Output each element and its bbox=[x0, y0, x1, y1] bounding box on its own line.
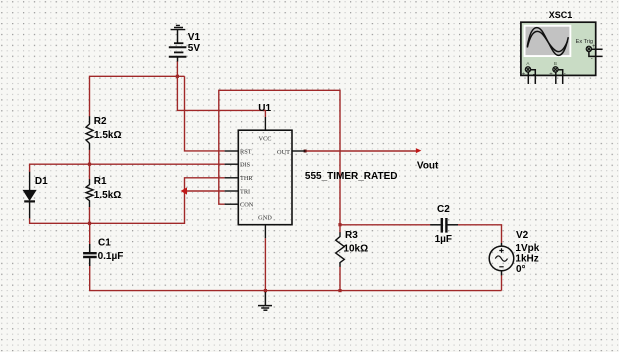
pin lead CON bbox=[225, 203, 239, 205]
svg-text:VCC: VCC bbox=[259, 135, 272, 142]
ground symbol bbox=[258, 292, 272, 310]
svg-text:+: + bbox=[592, 44, 596, 50]
junction dot OUT pin bbox=[304, 150, 307, 153]
arrow Vout wire end bbox=[416, 148, 422, 153]
wire vertical x184.5 to RST bbox=[185, 76, 225, 151]
svg-text:XSC1: XSC1 bbox=[549, 10, 573, 20]
svg-text:DIS: DIS bbox=[240, 162, 251, 169]
svg-text:V1: V1 bbox=[188, 32, 201, 43]
svg-text:+: + bbox=[549, 72, 553, 78]
svg-text:10kΩ: 10kΩ bbox=[343, 244, 368, 255]
svg-text:-: - bbox=[591, 56, 593, 62]
wire R2 bottom to R1 top bbox=[89, 150, 91, 180]
junction node R3/C2 bbox=[338, 223, 341, 226]
wire DIS line y164.2 bbox=[30, 164, 225, 172]
svg-text:D1: D1 bbox=[35, 176, 48, 187]
oscilloscope XSC1 body bbox=[521, 22, 596, 75]
svg-text:1.5kΩ: 1.5kΩ bbox=[94, 190, 121, 201]
svg-text:-: - bbox=[564, 71, 566, 77]
pin lead GND bbox=[264, 225, 266, 239]
wire OUT to Vout bbox=[305, 150, 419, 152]
svg-text:-: - bbox=[533, 72, 535, 78]
svg-text:B: B bbox=[554, 61, 557, 67]
wire R3 top leads bbox=[339, 225, 341, 291]
svg-text:1kHz: 1kHz bbox=[515, 253, 538, 264]
arrow TRI junction bbox=[181, 187, 187, 194]
svg-text:RST: RST bbox=[240, 148, 252, 155]
wire THR corner down to bottom node bbox=[30, 178, 225, 224]
wire V2 bottom bbox=[501, 275, 503, 291]
svg-text:Ex Trig: Ex Trig bbox=[576, 39, 593, 45]
svg-text:R2: R2 bbox=[94, 116, 107, 127]
svg-text:V2: V2 bbox=[516, 230, 529, 241]
scope pin stubs A bbox=[528, 70, 535, 84]
svg-text:R1: R1 bbox=[94, 176, 107, 187]
resistor R2 bbox=[86, 116, 93, 150]
pin lead TRI bbox=[225, 190, 239, 192]
svg-text:+: + bbox=[522, 72, 526, 78]
svg-text:Vout: Vout bbox=[417, 160, 439, 171]
svg-text:GND: GND bbox=[258, 215, 272, 222]
wire C1 top bbox=[89, 223, 91, 244]
junction node R2/R1/DIS bbox=[88, 163, 91, 166]
ac source V2 bbox=[489, 243, 514, 275]
junction node R1/C1/bottom bbox=[88, 222, 91, 225]
svg-text:OUT: OUT bbox=[277, 149, 290, 156]
junction node at V1/R2/RST bbox=[176, 75, 179, 78]
svg-text:1Vpk: 1Vpk bbox=[515, 243, 539, 254]
svg-text:1µF: 1µF bbox=[435, 234, 452, 245]
junction node R3 rail bbox=[338, 289, 341, 292]
scope terminal B bbox=[553, 67, 558, 72]
wire TRI branch bbox=[185, 190, 225, 192]
battery V1 bbox=[169, 30, 187, 62]
pin lead OUT bbox=[292, 150, 305, 152]
pin lead THR bbox=[225, 177, 239, 179]
scope terminal A bbox=[525, 67, 530, 72]
scope polarity marks bbox=[522, 44, 596, 78]
svg-text:CON: CON bbox=[240, 202, 254, 209]
scope trace waveforms bbox=[527, 28, 568, 56]
svg-text:0.1µF: 0.1µF bbox=[98, 251, 124, 262]
resistor R3 bbox=[336, 232, 345, 267]
wire CON net vertical and top run bbox=[219, 90, 340, 224]
pin lead DIS bbox=[225, 163, 239, 165]
svg-text:5V: 5V bbox=[188, 43, 201, 54]
pin lead VCC bbox=[264, 117, 266, 130]
power symbol bars on V1 top bbox=[171, 25, 186, 29]
oscilloscope screen bbox=[524, 25, 572, 57]
scope pin stubs B bbox=[556, 70, 563, 84]
svg-text:1.5kΩ: 1.5kΩ bbox=[94, 130, 121, 141]
svg-text:C2: C2 bbox=[437, 204, 450, 215]
resistor R1 bbox=[86, 179, 93, 207]
wire C2 line y224.8 bbox=[340, 225, 502, 243]
capacitor C1 bbox=[83, 244, 97, 266]
svg-text:TRI: TRI bbox=[240, 188, 250, 195]
svg-text:THR: THR bbox=[240, 175, 253, 182]
svg-text:0°: 0° bbox=[516, 264, 526, 275]
capacitor C2 bbox=[430, 218, 458, 233]
svg-text:U1: U1 bbox=[258, 103, 271, 114]
svg-text:R3: R3 bbox=[345, 230, 358, 241]
junction node GND rail bbox=[264, 289, 267, 292]
wire V1 bottom to VCC corner bbox=[177, 61, 265, 117]
svg-text:C1: C1 bbox=[98, 238, 111, 249]
scope terminal Ex Trig bbox=[586, 46, 591, 51]
wire R1 bottom bbox=[89, 207, 91, 224]
scope pin stubs Ex Trig bbox=[589, 49, 603, 56]
diode D1 bbox=[24, 172, 36, 219]
op box U1 555 timer bbox=[238, 130, 292, 225]
pin lead RST bbox=[225, 150, 239, 152]
wire R2 top rail y76.3 bbox=[90, 76, 185, 116]
wire 555 GND pin to rail bbox=[264, 238, 266, 290]
svg-text:555_TIMER_RATED: 555_TIMER_RATED bbox=[305, 171, 398, 182]
wire C1 bottom to ground rail bbox=[90, 266, 502, 291]
